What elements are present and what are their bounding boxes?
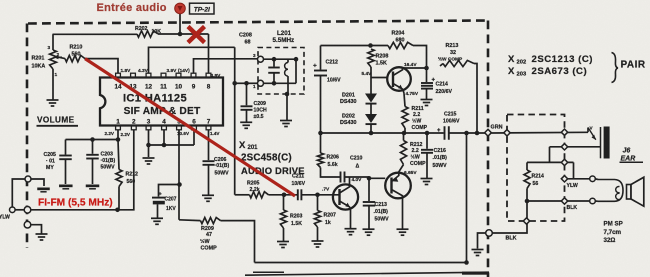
- ground bar left: [37, 188, 50, 192]
- ground below C209: [240, 122, 252, 128]
- connector on border (shield): [25, 176, 31, 182]
- ground below X203: [397, 229, 409, 235]
- ground below C216: [421, 179, 433, 185]
- ground below C214: [421, 100, 433, 106]
- wire R212b to FI-FM node: [118, 187, 120, 210]
- wire base tap X202: [371, 77, 388, 79]
- transistor X201 2SC458: [333, 184, 358, 210]
- ground below pin 3: [143, 158, 155, 164]
- wire bottom bus: [255, 260, 469, 265]
- capacitor C211 10/6V: [292, 173, 306, 200]
- wire supply rail top: [321, 45, 371, 47]
- wire pot top lead: [52, 34, 54, 50]
- bottom partial block: [245, 272, 489, 276]
- wire pin 7 down: [208, 130, 210, 160]
- wire edge jumper up: [12, 179, 25, 207]
- coil L201 dashed box: [258, 30, 304, 94]
- node R208 top: [368, 43, 373, 48]
- wire BLK to plug: [595, 200, 598, 202]
- capacitor C214 220/6V: [421, 68, 452, 99]
- resistor R207 1k: [314, 195, 336, 227]
- wire pin 12 riser to top rail: [149, 47, 235, 73]
- wire X203 collector to ground: [402, 198, 404, 229]
- wire R208 to diode chain: [362, 67, 373, 94]
- label GRN: [491, 125, 503, 131]
- ground below lower connector: [36, 234, 48, 240]
- wire pin 1 down: [116, 130, 121, 142]
- module boundary dashed border (left): [26, 24, 29, 249]
- wire pin 3 down: [146, 130, 151, 157]
- L201 internal capacitor: [268, 59, 280, 83]
- resistor R210 560: [65, 45, 85, 62]
- capacitor C210: [341, 155, 363, 182]
- resistor R203 1.5K: [280, 195, 302, 228]
- wire R212 to X203 emitter: [399, 165, 418, 176]
- wire output rail: [318, 131, 443, 136]
- resistor R204 680: [388, 31, 413, 49]
- resistor R213 32: [438, 43, 474, 66]
- connector on border (FI-FM): [24, 207, 31, 214]
- wire TP junction to corner: [180, 33, 209, 35]
- wire YLW to plug: [595, 178, 598, 181]
- ground below C213: [363, 229, 375, 235]
- earphone plug body: [598, 180, 623, 202]
- wire vertical feed line x235: [234, 47, 236, 195]
- resistor R214 56: [524, 162, 544, 188]
- ground below R207: [312, 227, 324, 247]
- wire circle to ground: [478, 233, 486, 249]
- connector diamond module right GRN: [561, 129, 567, 135]
- connector GRN crossing main border: [485, 129, 492, 136]
- speaker PM SP: [627, 177, 644, 206]
- capacitor C213 .01(B): [363, 180, 389, 229]
- op-amp IC1 HA1125 body: [100, 78, 223, 126]
- annotation red X cross-out: [188, 27, 205, 43]
- label X201 designator: [239, 140, 305, 176]
- ground right lower: [472, 250, 484, 256]
- jack J6 body: [601, 127, 610, 159]
- jack tip contact arrow: [588, 126, 596, 140]
- wire to C207: [159, 185, 180, 197]
- wire YLW: [565, 179, 590, 189]
- connector diamond YLW: [561, 176, 567, 182]
- L201 pin 3 terminal: [253, 53, 264, 62]
- resistor R212 2.2: [400, 133, 426, 167]
- capacitor C216 .01(B): [421, 133, 447, 178]
- resistor R206 5.6k: [317, 133, 339, 168]
- annotation red diagonal line: [85, 59, 295, 196]
- wire lower connector to ground: [31, 225, 42, 234]
- L201 tap to ground: [280, 83, 292, 126]
- resistor R202: [135, 26, 161, 37]
- capacitor C207: [152, 191, 177, 217]
- node TP-21 junction: [178, 32, 183, 37]
- connector BLK circle: [590, 198, 596, 204]
- wire C211 to X201 base: [301, 187, 339, 198]
- connector edge YLW: [0, 207, 15, 220]
- connector diamond BLK: [561, 198, 567, 204]
- label VOLUME: [37, 116, 79, 126]
- connector diamond ring: [561, 144, 567, 150]
- diode D202 DS430: [340, 113, 377, 133]
- earphone jack module dashed box: [507, 115, 565, 222]
- wire R206 to collector line: [321, 168, 341, 178]
- module boundary dashed border (right): [487, 21, 490, 277]
- wire FI-FM feed: [31, 209, 118, 211]
- label J6 EAR: [620, 148, 644, 163]
- ground below R203: [277, 228, 289, 248]
- wire decoupling rail left: [66, 137, 119, 142]
- wire pot bottom to ground: [52, 69, 54, 100]
- annotation Entrée audio: [97, 2, 167, 14]
- wire C210 to X203 base: [345, 176, 386, 183]
- node FI-FM junction: [115, 208, 120, 213]
- resistor R211 2.2: [402, 106, 428, 131]
- wire rail after C215: [449, 131, 488, 136]
- label speaker: [604, 220, 623, 244]
- wire pin 2 down: [119, 130, 134, 210]
- potentiometer R201 10KA: [32, 45, 63, 78]
- wire to R204: [371, 45, 389, 47]
- wire module bottom exit: [493, 201, 528, 233]
- wire collector feed 16.4V: [403, 62, 429, 70]
- wire R210 to IC pin 14: [85, 59, 118, 74]
- wire BLK: [527, 201, 590, 211]
- voltage labels IC bottom: [105, 131, 221, 137]
- voltage labels IC top: [121, 68, 222, 79]
- wire jack ring feed: [550, 146, 601, 148]
- L201 pin 1 terminal: [253, 80, 264, 89]
- connector diamond bottom border: [523, 218, 529, 224]
- wire R205 to C211: [269, 193, 298, 198]
- transistor X203 2SA673: [385, 173, 411, 199]
- IC1 bottom pins 1-7: [116, 119, 211, 130]
- label X202 type: [508, 54, 593, 66]
- ground below volume pot: [47, 100, 59, 106]
- resistor R205 2.2k: [247, 181, 269, 198]
- wire R209 to bottom bus: [221, 221, 255, 263]
- resistor R212b 560: [116, 140, 138, 187]
- connector diamond module left: [504, 130, 510, 136]
- label TP-21 box: [190, 3, 215, 14]
- wire switch to YLW: [573, 162, 575, 178]
- diode D201 DS430: [340, 92, 377, 114]
- ground bar below C203: [86, 185, 100, 189]
- label X203 type: [508, 66, 587, 78]
- capacitor C209: [241, 83, 268, 122]
- wire pin 9 to L201 pin 3: [194, 59, 258, 73]
- label PAIR brace: [612, 53, 646, 83]
- capacitor C206 .01(B): [203, 157, 230, 195]
- capacitor C203 .01(B): [86, 140, 115, 185]
- connector diamond switch: [561, 159, 567, 165]
- resistor R208 1.5K: [368, 49, 389, 67]
- wire R214 bottom: [525, 189, 530, 204]
- wire R202 to TP junction: [158, 33, 180, 35]
- wire R204 to collector feed: [413, 46, 427, 69]
- capacitor C215 100/6V: [437, 111, 460, 139]
- ground below C207: [151, 218, 163, 224]
- test point TP-21 stem: [179, 14, 181, 35]
- capacitor C208 label: [239, 33, 252, 46]
- resistor R209 47: [200, 218, 221, 252]
- capacitor C205 .01 MY: [44, 140, 72, 185]
- wire X202 emitter to R211: [404, 91, 419, 106]
- wire GRN branch down: [466, 133, 468, 263]
- ground below C206: [202, 195, 214, 201]
- connector YLW circle: [590, 176, 596, 182]
- wire to edge connector: [15, 209, 24, 211]
- wire ring-switch link: [549, 147, 551, 163]
- wire X201 collector up: [349, 177, 351, 184]
- wire X201 emitter to ground: [350, 210, 352, 228]
- inductor L201 winding: [285, 59, 296, 83]
- wire GRN into module: [492, 131, 589, 136]
- L201 internal top wire: [264, 57, 299, 62]
- capacitor C212: [313, 46, 341, 134]
- wire R211 to rail: [404, 128, 406, 133]
- wire x235 to R205: [235, 194, 250, 196]
- wire switch contact: [527, 161, 574, 163]
- transistor X202 2SC1213: [387, 67, 411, 93]
- module boundary dashed border (top): [28, 21, 488, 24]
- wire L201 pin1 to C209: [232, 81, 257, 86]
- wire pot wiper to R210: [59, 57, 66, 58]
- ground bar below C205: [59, 185, 73, 189]
- connector on border lower: [24, 221, 31, 228]
- ground below X201: [345, 229, 357, 235]
- test point TP-21 red circle: [175, 3, 186, 14]
- bias rail pins 3-4-6: [149, 130, 195, 148]
- IC1 top pins 14-8: [114, 73, 210, 90]
- L201 internal bottom wire: [264, 81, 297, 86]
- wire corner down to IC pin 8: [208, 34, 210, 74]
- wire pin 5 down: [177, 130, 182, 220]
- wire shield to ground: [31, 179, 44, 186]
- wire pin5 node to R209: [179, 219, 201, 222]
- wire R213 right down to GRN rail: [474, 64, 477, 134]
- connector circle on main border: [486, 230, 493, 237]
- annotation FI-FM: [38, 197, 113, 208]
- label BLK lower: [506, 236, 517, 242]
- wire pot top to R202: [53, 33, 138, 35]
